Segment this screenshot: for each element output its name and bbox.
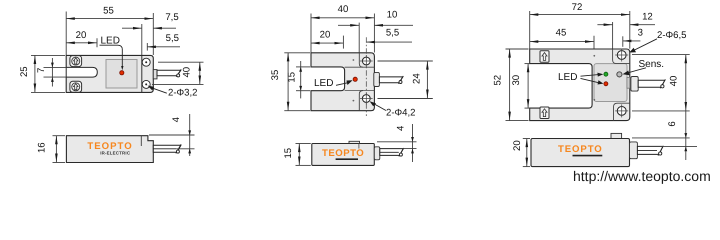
hole H2 bottom (phi6,5) <box>617 107 626 116</box>
svg-text:10: 10 <box>387 10 398 21</box>
dim 40 line <box>311 17 374 19</box>
svg-text:LED: LED <box>558 72 577 83</box>
body L1 side view <box>66 136 153 163</box>
body L1 top view <box>66 55 153 92</box>
dim 10 line <box>338 24 359 26</box>
cable break <box>398 76 403 84</box>
cable <box>637 146 662 154</box>
label 2-phi6,5 leader <box>633 39 657 51</box>
dim 20 tick <box>96 38 98 47</box>
body M top view <box>311 53 374 111</box>
emitter dots <box>353 59 355 61</box>
svg-text:5,5: 5,5 <box>386 27 399 38</box>
svg-text:25: 25 <box>19 66 30 77</box>
svg-text:40: 40 <box>668 76 679 87</box>
Sens leader <box>628 68 647 73</box>
dim 25 ext lines <box>31 54 65 56</box>
ext line left (x=311) <box>310 14 312 53</box>
screw M1 top arm <box>540 51 549 63</box>
extension line right (x=153.3) <box>152 13 154 55</box>
svg-text:12: 12 <box>642 12 653 23</box>
dim 15 line <box>298 144 300 166</box>
svg-text:TEOPTO: TEOPTO <box>322 148 364 159</box>
svg-text:4: 4 <box>171 116 182 122</box>
logo underline <box>573 155 603 157</box>
dim 4 line <box>189 114 191 156</box>
cable <box>379 77 402 83</box>
svg-text:20: 20 <box>76 30 87 41</box>
dim 5,5 line <box>147 46 180 48</box>
hole H1 top (phi4,2) <box>362 57 370 65</box>
svg-text:TEOPTO: TEOPTO <box>558 144 603 155</box>
dim 4 ext top <box>377 141 417 143</box>
dim 52 ext lines <box>506 48 529 50</box>
slot step lines to right edge <box>345 66 375 68</box>
dim 40 ext lines <box>632 54 690 56</box>
end cap line <box>140 136 142 146</box>
svg-text:2-Φ3,2: 2-Φ3,2 <box>168 87 198 98</box>
dim 7 line + outside arrows <box>51 58 53 87</box>
svg-text:55: 55 <box>103 6 114 17</box>
svg-text:72: 72 <box>572 2 583 13</box>
dim 30 line <box>527 64 529 109</box>
svg-text:40: 40 <box>181 67 192 78</box>
svg-text:LED: LED <box>101 35 120 46</box>
screw M1 top <box>70 56 82 67</box>
cable break <box>660 79 665 88</box>
dim 40 line <box>199 62 201 84</box>
hole H2 bottom <box>142 80 150 88</box>
body R top view <box>530 49 630 121</box>
LED leader <box>336 83 349 86</box>
dim 35 ext lines <box>284 52 310 54</box>
dim 45 line <box>530 41 594 43</box>
extension line left (x=66.2) <box>65 12 67 56</box>
dim 16 line <box>55 136 57 163</box>
dim 5,5 line <box>366 41 412 43</box>
dim 6 line + arrows <box>685 111 687 160</box>
dim 20 line <box>311 42 343 44</box>
emitter dots <box>593 55 595 57</box>
slot white fill <box>66 67 97 77</box>
LED dot <box>353 77 357 81</box>
screw M2 bottom arm <box>540 107 549 119</box>
svg-text:http://www.teopto.com: http://www.teopto.com <box>573 168 711 184</box>
svg-text:52: 52 <box>492 75 503 86</box>
svg-text:LED: LED <box>314 78 333 89</box>
svg-text:40: 40 <box>338 4 349 15</box>
cable stub <box>374 72 380 86</box>
cable top view <box>157 70 181 76</box>
cable break <box>658 146 663 156</box>
svg-text:16: 16 <box>37 142 48 153</box>
bump edge line <box>358 144 360 149</box>
body R side view <box>531 139 630 167</box>
cable <box>380 149 403 156</box>
dim 15 ext lines <box>296 143 311 145</box>
svg-text:30: 30 <box>511 75 522 86</box>
svg-text:24: 24 <box>412 73 423 84</box>
dim 6 ext bottom <box>640 145 697 147</box>
hole pad bottom <box>614 103 630 120</box>
dim 20 tick <box>342 36 344 49</box>
module rect <box>594 64 627 102</box>
svg-text:45: 45 <box>556 27 567 38</box>
dim 24 line <box>426 61 428 99</box>
ext line optical axis (x=359.2) <box>358 23 360 53</box>
svg-text:4: 4 <box>395 125 406 131</box>
dim 40 ext lines <box>158 61 204 63</box>
dim 15 line + arrows <box>300 61 302 98</box>
label 2-phi3,2 leader <box>149 87 167 93</box>
module notch <box>627 77 630 88</box>
ext line right (x=374.4) <box>373 14 375 53</box>
svg-text:20: 20 <box>512 140 523 151</box>
clamp strip line <box>141 55 143 92</box>
svg-text:35: 35 <box>270 70 281 81</box>
dim 45 tick <box>593 36 595 49</box>
cable stub top view <box>153 70 157 79</box>
svg-text:20: 20 <box>320 29 331 40</box>
ext line pad (x=612.6) <box>612 22 614 49</box>
cable middle line <box>380 151 399 153</box>
dim 25 line <box>34 55 36 92</box>
hole pad bottom <box>359 91 363 111</box>
svg-text:IR-ELECTRIC: IR-ELECTRIC <box>100 151 131 156</box>
dim 4 ext line top <box>149 134 195 136</box>
Sens adjuster <box>617 72 622 77</box>
green LED dot <box>604 72 608 76</box>
sensing face square <box>106 60 137 89</box>
dim 6 ext top <box>632 137 690 139</box>
dim 16 ext lines <box>53 135 66 137</box>
dim 20 line <box>526 139 528 167</box>
bump tab <box>349 141 360 143</box>
cable stub <box>630 142 638 159</box>
dim 4 line + arrows <box>412 124 414 162</box>
dim 3 tick <box>622 36 624 47</box>
LED leader <box>100 45 123 67</box>
cable stub <box>374 147 380 160</box>
dim 5,5 tick <box>146 43 148 51</box>
cable break <box>399 148 404 156</box>
svg-text:5,5: 5,5 <box>166 33 179 44</box>
dim 52 line <box>509 49 511 121</box>
svg-text:2-Φ4,2: 2-Φ4,2 <box>386 107 416 118</box>
screw M2 bottom <box>70 81 82 92</box>
dim 24 ext lines <box>378 60 433 62</box>
dim 3 line <box>623 40 641 42</box>
hole pad top <box>613 49 630 64</box>
body M side view <box>312 144 375 166</box>
tab <box>611 133 622 138</box>
dim 7,5 line <box>122 27 142 29</box>
logo underline <box>336 158 358 160</box>
ext line left (x=529.7) <box>529 11 531 49</box>
centerline dash-dot <box>365 37 367 116</box>
dim 55 line <box>66 18 153 20</box>
dim 12 line <box>597 24 612 26</box>
hole H1 top (phi6,5) <box>617 51 626 60</box>
cable middle line <box>637 150 657 152</box>
cable <box>638 80 665 87</box>
extension line hole-center (x=141.8 above body) <box>141 24 143 55</box>
svg-text:3: 3 <box>638 28 643 39</box>
ext line right (x=629.8) <box>629 11 631 49</box>
label 2-phi4,2 leader <box>372 103 387 111</box>
dim 4 ext line bottom <box>177 148 195 150</box>
dim 15 ext lines <box>296 66 310 68</box>
cable middle line <box>153 148 177 150</box>
dim 20 line <box>66 42 97 44</box>
hole H2 bottom (phi4,2) <box>362 95 370 103</box>
hole pad top <box>359 53 363 67</box>
cable stub <box>631 77 638 92</box>
svg-text:6: 6 <box>667 121 678 126</box>
red LED dot <box>604 82 608 86</box>
LED dot <box>120 71 124 75</box>
dim 72 line <box>530 14 630 16</box>
svg-text:7: 7 <box>36 68 47 73</box>
dim 35 line <box>287 53 289 111</box>
svg-text:2-Φ6,5: 2-Φ6,5 <box>657 30 687 41</box>
dim 20 ext lines <box>523 138 530 140</box>
slot extension lines (7 dim) <box>44 66 67 68</box>
cable break <box>176 69 181 76</box>
hole H1 top <box>142 58 150 66</box>
dim 40 line <box>685 55 687 111</box>
dim 30 ext lines <box>525 63 530 65</box>
cable side view <box>153 145 181 152</box>
dim 4 ext bottom <box>400 148 417 150</box>
LED leaders <box>581 75 599 77</box>
svg-text:15: 15 <box>283 148 294 159</box>
cable break <box>176 144 181 153</box>
svg-text:7,5: 7,5 <box>165 12 178 23</box>
